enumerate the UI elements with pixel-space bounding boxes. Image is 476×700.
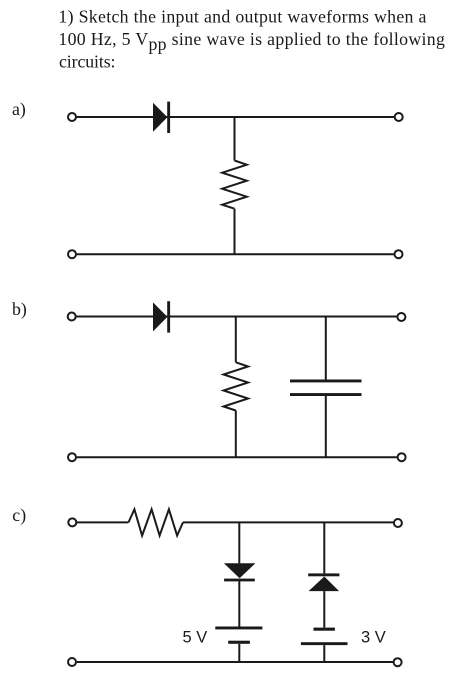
svg-text:a): a) — [12, 99, 26, 120]
capacitor C1 — [290, 380, 362, 397]
wire c right branch lower — [323, 645, 325, 662]
svg-text:3 V: 3 V — [361, 628, 386, 646]
wire c right branch middle — [323, 591, 325, 628]
terminal a top-right — [395, 113, 403, 121]
wire b bottom rail — [77, 456, 397, 458]
wire b resistor bottom lead — [235, 411, 237, 458]
terminal b top-right — [397, 313, 405, 321]
wire c right branch upper — [323, 522, 325, 573]
svg-text:100 Hz, 5 Vpp sine wave is app: 100 Hz, 5 Vpp sine wave is applied to th… — [58, 29, 445, 54]
wire b top rail — [76, 316, 396, 318]
terminal a bottom-left — [68, 250, 76, 258]
svg-text:c): c) — [12, 505, 26, 526]
diode D3 — [224, 563, 256, 581]
wire c bottom rail — [77, 661, 393, 663]
diode D2 — [153, 301, 170, 332]
terminal c top-right — [394, 519, 402, 527]
terminal b bottom-left — [68, 453, 76, 461]
wire a resistor bottom lead — [234, 209, 236, 255]
svg-text:1) Sketch the input and output: 1) Sketch the input and output waveforms… — [58, 7, 426, 28]
terminal a top-left — [68, 113, 76, 121]
terminal c bottom-right — [394, 658, 402, 666]
battery B1 5V — [215, 627, 262, 644]
wire c left branch middle — [238, 581, 240, 626]
resistor R2 — [224, 362, 249, 410]
wire b capacitor top lead — [325, 317, 327, 380]
resistor R1 — [222, 161, 247, 209]
terminal b top-left — [68, 313, 76, 321]
wire c input lead — [77, 521, 129, 523]
wire b capacitor bottom lead — [325, 396, 327, 457]
wire a bottom rail — [77, 253, 394, 255]
title text — [58, 7, 445, 72]
wire a top rail — [77, 116, 394, 118]
resistor R3 — [129, 509, 184, 535]
svg-text:5 V: 5 V — [183, 628, 208, 646]
diode D1 — [153, 102, 170, 133]
wire c left branch lower — [238, 644, 240, 662]
wire c left branch upper — [238, 522, 240, 563]
terminal b bottom-right — [398, 453, 406, 461]
svg-text:circuits:: circuits: — [59, 52, 116, 72]
terminal a bottom-right — [395, 250, 403, 258]
wire a resistor top lead — [234, 117, 236, 161]
battery B2 3V — [301, 628, 348, 646]
svg-text:b): b) — [12, 299, 27, 320]
wire b resistor top lead — [235, 317, 237, 363]
diode D4 — [308, 573, 339, 591]
terminal c top-left — [68, 518, 76, 526]
terminal c bottom-left — [68, 658, 76, 666]
wire c top rail — [183, 521, 393, 523]
